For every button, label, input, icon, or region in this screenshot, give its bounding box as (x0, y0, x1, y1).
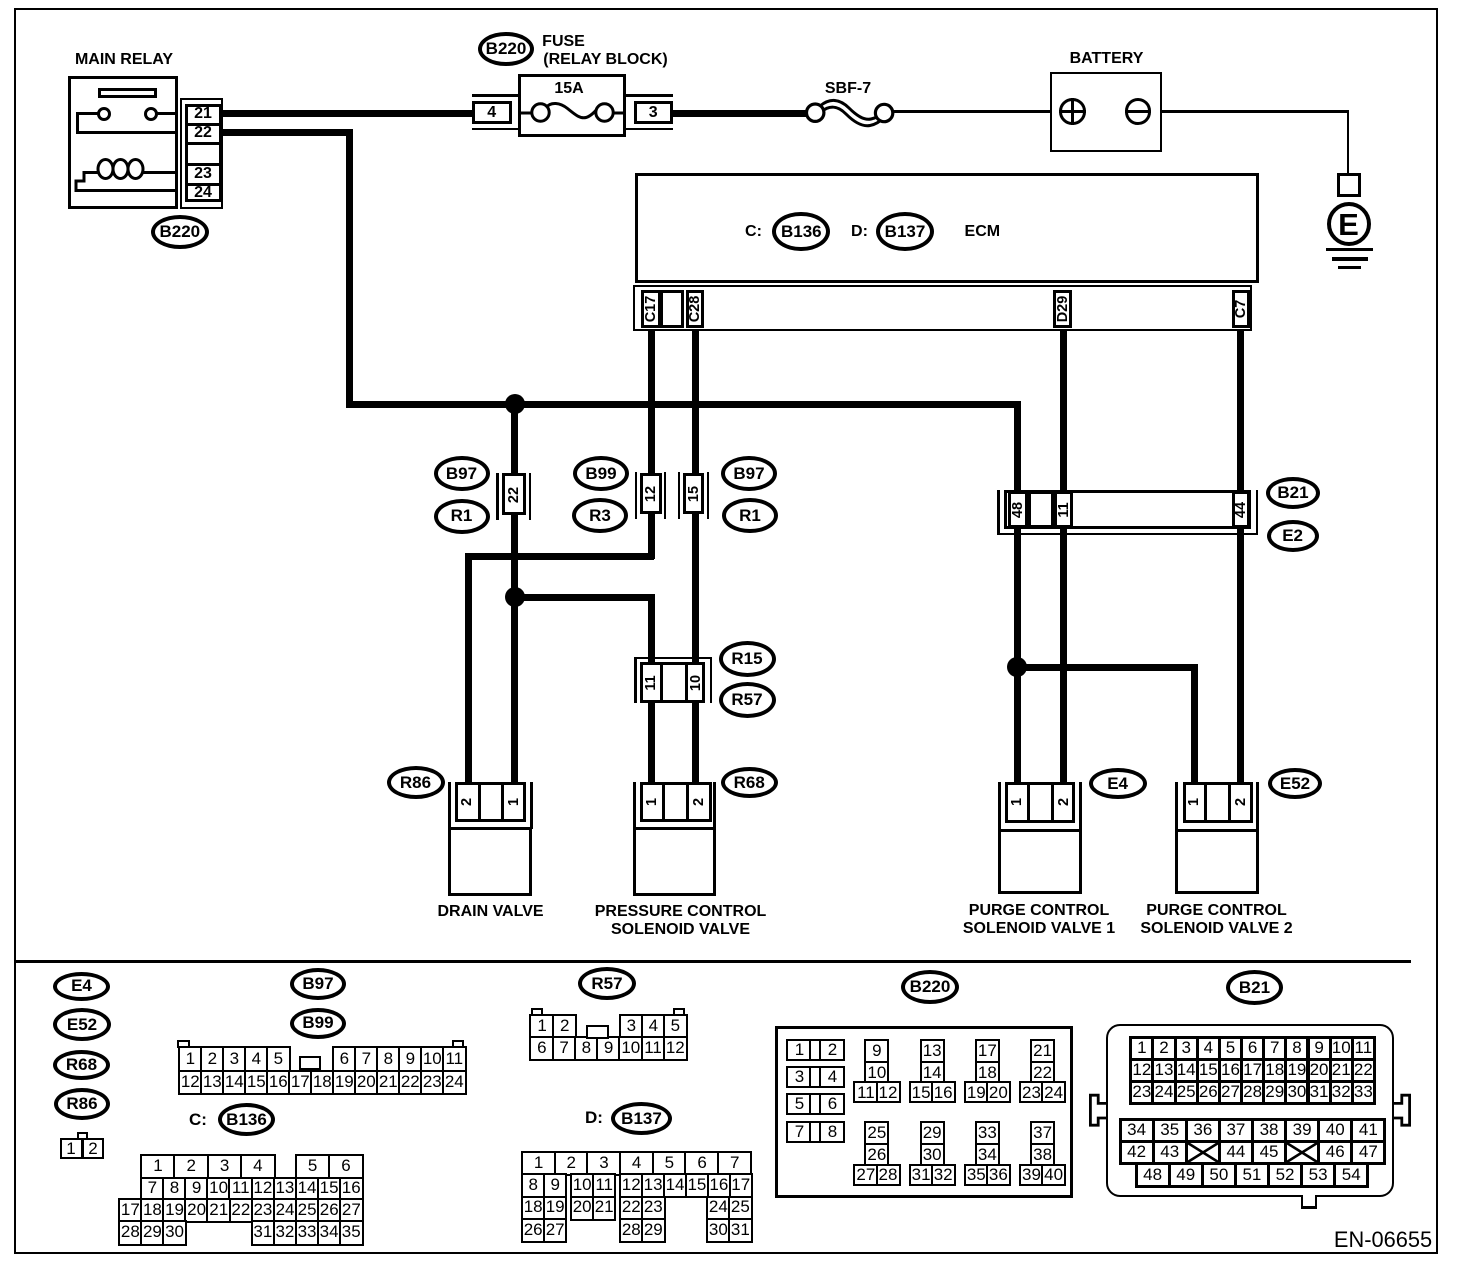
connector B220 oval (901, 970, 959, 1004)
relay contact right (144, 107, 158, 121)
ECM pin D29 cell (1053, 290, 1073, 328)
main relay connector strip B220 (180, 98, 224, 209)
connector B220 pin clusters (864, 1039, 889, 1064)
node junction dot at bus / connector 22 branch (505, 394, 525, 414)
node junction dot purge branch (1007, 657, 1027, 677)
wire: branch right to purge control valve 2 pin 1 (1017, 664, 1194, 671)
connector B21 oval (1226, 970, 1283, 1005)
section divider line (14, 960, 1411, 963)
connector R57 oval label (719, 682, 776, 718)
connector B136 pinout (140, 1154, 176, 1180)
ECM box (635, 173, 1259, 283)
connector E2 oval label (1267, 520, 1319, 552)
connector B21 pinout grid rows 1-33 (1129, 1036, 1154, 1061)
wire: fuse terminal 3 to fusible link SBF-7 (673, 110, 809, 117)
diagram id EN-06655 (1334, 1227, 1432, 1253)
pressure valve pin row (640, 782, 712, 822)
wire: SBF-7 to battery positive terminal (892, 110, 1059, 113)
fuse terminal 4 (472, 101, 512, 125)
B21 pin 48 cell (1008, 491, 1028, 528)
drain valve bracket (448, 782, 451, 829)
wire: battery negative terminal to ground E (1124, 110, 1349, 113)
wire: ECM C7 down through B21 pin 44 to purge valve 2 pin 2 (1237, 330, 1244, 786)
connector B21 housing right tab (1390, 1092, 1412, 1128)
relay internal bar (98, 88, 157, 98)
fuse box 15A (518, 74, 627, 137)
connector B220 pinout housing (775, 1026, 1073, 1198)
wire: branch down through connector 22 to drain valve pin 1 (511, 404, 518, 786)
battery label (1070, 50, 1144, 68)
pin 21 cell (185, 104, 223, 126)
connector R15 oval label (719, 641, 776, 677)
B21 pin 44 cell (1232, 491, 1250, 528)
ECM pin C7 cell (1232, 290, 1250, 328)
purge valve 2 bracket (1175, 782, 1178, 829)
purge valve 2 pin row (1183, 782, 1253, 823)
wire: ECM C28 down through connector 15 and pin 10 to pressure valve pin 2 (692, 330, 699, 786)
ECM connector oval B136 (772, 212, 830, 252)
connector B21 pinout grid rows 34-47 (1119, 1118, 1155, 1143)
connector B220 left pin pairs (786, 1039, 812, 1061)
pressure valve body (633, 827, 717, 896)
inline connector 11/10 bracket (634, 657, 712, 660)
fuse terminal 4 housing lines (472, 94, 518, 97)
drain valve pin row (455, 782, 526, 822)
fusible link SBF-7 symbol (800, 92, 900, 142)
connector E52 oval label (1268, 768, 1322, 799)
connector B97/R1 oval labels (434, 456, 490, 491)
SBF-7 label (825, 80, 871, 98)
ECM pin C17 cell (641, 290, 661, 328)
relay contact left (97, 107, 111, 121)
pin 22 cell (185, 123, 223, 145)
connector R68 oval (53, 1050, 110, 1080)
wire: main relay pin 21 to fuse terminal 4 (222, 110, 472, 117)
inline connector 11/10 box (640, 662, 705, 703)
ECM connector D label (851, 223, 868, 241)
ground E terminal box (1337, 173, 1361, 197)
connector E52 oval (53, 1008, 111, 1041)
inline connector pin 15 (678, 472, 681, 519)
fuse block label B220 oval (478, 32, 534, 66)
ECM connector C label (745, 223, 762, 241)
relay coil (68, 155, 178, 200)
main relay box (68, 76, 178, 209)
ground symbol lines (1326, 248, 1373, 251)
connector B99/R3 oval labels (573, 456, 629, 491)
wire: horizontal bus to B21 pin 48 (346, 401, 1020, 408)
connector B97/B99 pinout (177, 1040, 189, 1049)
purge valve 1 bracket (998, 782, 1001, 829)
connector B21 X cell left (1185, 1140, 1221, 1165)
drain valve label (437, 903, 543, 921)
connector R86 oval label (387, 766, 445, 799)
drain valve body (448, 827, 532, 896)
main relay label (75, 51, 173, 69)
connector B21 X cell right (1284, 1140, 1320, 1165)
purge valve 1 pin row (1005, 782, 1075, 823)
connector label B220 oval (151, 215, 209, 249)
pin 23 cell (185, 163, 223, 186)
wire: vertical drop to B21 pin 48 / purge valve 1 pin 1 (1014, 401, 1021, 786)
wire: ECM D29 down through B21 pin 11 to purge valve 1 pin 2 (1060, 330, 1067, 786)
fuse element symbol (518, 95, 628, 135)
connector C: B136 label (189, 1110, 207, 1130)
ECM pin C28 cell (686, 290, 704, 328)
connector R68 oval label (721, 767, 778, 798)
connector B137 pinout (521, 1151, 556, 1176)
fuse terminal 3 (634, 101, 674, 125)
wire: main relay pin 22 right then down (222, 129, 353, 136)
relay contact wire left (77, 112, 99, 115)
ECM blank cell (660, 290, 684, 328)
connector B21 bottom tab (1303, 1194, 1314, 1206)
connector B97/R1 oval labels right (721, 456, 777, 491)
purge valve 2 label (1146, 902, 1286, 920)
connector B97 oval (290, 968, 346, 1000)
B21 strip shadow lines (997, 490, 1000, 536)
ECM connector oval B137 (876, 212, 935, 252)
pressure valve bracket (633, 782, 636, 829)
connector B21 pinout grid rows 48-54 (1135, 1162, 1171, 1188)
battery box (1050, 72, 1162, 152)
B21 pin 11 cell (1054, 491, 1073, 528)
fuse label (542, 33, 585, 51)
connector B137 oval (611, 1102, 672, 1135)
fuse terminal 3 housing lines (626, 94, 673, 97)
battery negative terminal (1125, 98, 1152, 125)
relay contact wire right (157, 112, 176, 115)
inline connector pin 22 (496, 473, 499, 520)
purge valve 2 body (1175, 829, 1260, 894)
connector R57 pinout (531, 1008, 543, 1017)
blank pin cell (185, 142, 223, 167)
pin 24 cell (185, 183, 223, 202)
connector B21 oval label (1266, 477, 1320, 509)
pressure valve label (595, 903, 767, 921)
connector B21 housing left tab (1088, 1092, 1110, 1128)
battery positive terminal (1059, 98, 1086, 125)
connector R86 oval (54, 1088, 110, 1120)
ECM connector strip (633, 285, 1253, 331)
connector E4 oval (53, 972, 110, 1001)
purge valve 1 label (969, 902, 1109, 920)
wire: ECM C17 down through connector 12 then left to drain valve pin 2 (648, 330, 655, 559)
valve connector 1-2 pinout (77, 1132, 88, 1141)
B21 blank cell (1028, 491, 1055, 528)
B21 inline connector strip (1004, 490, 1251, 530)
connector B99 oval (290, 1008, 346, 1039)
inline connector pin 12 (635, 472, 638, 519)
connector B21 housing (1106, 1024, 1394, 1197)
connector E4 oval label (1089, 768, 1147, 799)
connector B136 oval (218, 1103, 275, 1136)
purge valve 1 body (998, 829, 1083, 894)
connector D: B137 label (585, 1108, 603, 1128)
ground E circle (1327, 202, 1371, 246)
connector R57 oval (578, 967, 636, 1000)
node junction dot below connector 22 (505, 587, 525, 607)
wire: branch right to pressure control valve pin 1 (515, 594, 655, 601)
ECM label (965, 223, 1001, 241)
